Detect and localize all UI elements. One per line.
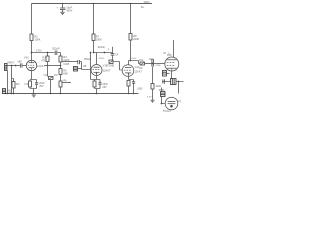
wire grid resistor to ground <box>13 88 15 94</box>
svg-text:470K: 470K <box>155 65 161 67</box>
wire V2 plate column upper <box>93 4 95 35</box>
tube V5 rectifier <box>165 97 178 110</box>
wire grid leak drop <box>90 53 92 80</box>
label volume pot <box>44 74 58 77</box>
svg-text:1M: 1M <box>54 74 57 77</box>
label tail <box>63 79 67 82</box>
wire to dropping resistor <box>47 53 49 57</box>
ground symbol main <box>32 95 36 97</box>
svg-text:68K: 68K <box>63 71 68 75</box>
wire cathode bottom loop <box>30 84 37 93</box>
svg-text:INPUT: INPUT <box>8 62 16 65</box>
wire mid box stub <box>78 68 82 70</box>
label pot <box>108 64 115 67</box>
svg-text:VOL: VOL <box>44 74 49 77</box>
svg-text:250V: 250V <box>99 58 105 60</box>
capacitor output row <box>163 79 165 83</box>
node input drop <box>11 65 13 67</box>
capacitor cathode bypass V1 <box>35 83 38 84</box>
label V3 <box>131 58 142 74</box>
label dropping resistor <box>41 57 46 63</box>
svg-text:.022: .022 <box>149 58 154 61</box>
label V2 cathode cap <box>102 83 108 89</box>
resistor cathode V1 <box>29 81 32 87</box>
ground symbol filter <box>60 12 64 14</box>
resistor cathode V2 <box>93 81 96 87</box>
wire output drop <box>178 82 180 94</box>
wire V3 cathode tee <box>129 80 134 82</box>
label filter cap <box>57 6 73 13</box>
svg-text:VOL: VOL <box>139 59 144 62</box>
wire filter cap stub <box>62 4 64 8</box>
wire B+ top rail <box>32 3 153 5</box>
svg-text:PWR: PWR <box>159 89 165 92</box>
tube V3 triode <box>122 65 134 77</box>
resistor divider upper <box>59 56 62 62</box>
svg-text:0.005: 0.005 <box>63 63 70 66</box>
tube V2 triode <box>91 65 102 76</box>
svg-text:R8: R8 <box>83 65 87 68</box>
wire pot to ground <box>50 80 52 94</box>
wire V3 cathode <box>128 76 130 79</box>
wire cap to pot <box>112 55 114 60</box>
wire coupling cap column <box>112 47 114 54</box>
wire divider mid <box>60 62 62 69</box>
label gnd text <box>137 87 143 90</box>
wire pot to V3 grid <box>113 62 122 71</box>
capacitor coupling to 6V6 <box>152 59 154 67</box>
node plate tee <box>47 52 49 54</box>
label B+ voltage <box>141 0 150 9</box>
wire filter cap to ground <box>62 10 64 13</box>
label grid cap <box>18 60 23 63</box>
wire plate node to pot right <box>131 61 141 64</box>
label ground box <box>7 90 12 94</box>
wire cap to 6V6 grid <box>154 63 165 65</box>
wire V2 cathode loop <box>95 84 101 93</box>
wire V3 plate jog <box>129 61 131 65</box>
label grid wire <box>83 65 87 68</box>
label grid leak <box>147 65 162 99</box>
resistor divider lower <box>59 69 62 75</box>
label input wire <box>8 62 16 65</box>
wire V2 plate stub <box>96 53 98 65</box>
svg-text:5Y3GT: 5Y3GT <box>163 109 172 113</box>
node output junction <box>178 81 180 83</box>
label output cap <box>149 58 154 61</box>
label V1A <box>24 56 45 68</box>
capacitor C2 coupling <box>55 51 57 56</box>
capacitor grid input <box>20 63 22 67</box>
potentiometer volume out <box>140 62 145 65</box>
transformer output OT <box>171 79 177 85</box>
label OT lead <box>163 52 170 56</box>
wire cap to divider <box>57 53 60 57</box>
svg-text:6V6: 6V6 <box>167 53 172 57</box>
svg-text:1M: 1M <box>139 67 142 70</box>
wire plate to coupling cap <box>32 52 55 54</box>
capacitor cathode bypass V2 <box>98 83 101 84</box>
wire 6V6 cathode <box>171 71 173 79</box>
svg-text:12AX7: 12AX7 <box>37 64 45 68</box>
wire 6V6 box stub <box>167 73 170 75</box>
node junction rail filter <box>62 3 64 5</box>
wire jog to grid resistor <box>12 79 14 82</box>
wire output row <box>162 81 184 83</box>
wire 6V6 plate from OT <box>173 40 175 57</box>
resistor dropping <box>46 56 49 62</box>
connector J1 input jack <box>5 64 8 71</box>
resistor R2 plate load V1 <box>30 34 33 41</box>
label coupling cap V2-V3 <box>97 45 105 49</box>
label V2 plate R <box>96 34 102 41</box>
label volume out <box>139 59 144 70</box>
resistor tail <box>59 81 62 87</box>
wire V2 plate column lower <box>93 41 95 53</box>
wire divider to tail <box>60 75 62 82</box>
label cathode R <box>24 83 29 86</box>
label mid cap <box>84 58 91 61</box>
label 1M <box>16 82 20 86</box>
wire grid leak drop <box>152 67 154 84</box>
node rail V2 column <box>93 3 95 5</box>
node plate junction V1 <box>31 52 33 54</box>
wire grid leak to ground <box>152 89 154 100</box>
component 6V6 cathode box <box>163 71 167 77</box>
label V3 plate R <box>133 34 139 41</box>
wire dropping resistor lower <box>47 62 49 66</box>
node tap <box>47 65 49 67</box>
wire V1 cathode <box>31 71 33 80</box>
wire tap to left <box>45 65 61 67</box>
resistor plate load V3 <box>129 34 132 41</box>
label divider lower <box>63 68 68 75</box>
svg-text:220K: 220K <box>133 37 139 41</box>
wire jack to grid cap <box>7 65 20 67</box>
capacitor mid coupling <box>78 60 80 64</box>
wire V3 plate column upper <box>130 4 132 34</box>
label rectifier <box>163 100 182 113</box>
node V3 plate <box>130 60 132 62</box>
tube V4 6V6 output <box>165 57 179 71</box>
svg-text:12AX7: 12AX7 <box>135 71 143 74</box>
svg-text:100K: 100K <box>96 37 102 41</box>
svg-text:PT: PT <box>178 100 182 103</box>
svg-text:1.5K: 1.5K <box>24 83 29 86</box>
svg-text:47K: 47K <box>41 59 46 62</box>
svg-text:GND: GND <box>137 87 143 90</box>
svg-text:150V: 150V <box>131 58 137 60</box>
wire to power terminal <box>161 88 163 92</box>
svg-text:68K: 68K <box>18 60 23 63</box>
node rail junctions <box>7 93 135 95</box>
svg-text:R6: R6 <box>63 79 67 82</box>
node grid drop <box>90 52 92 54</box>
wire V1 grid <box>23 65 27 67</box>
svg-text:12AX7: 12AX7 <box>103 69 111 73</box>
wire V1 plate column lower <box>31 41 33 61</box>
capacitor coupling V2-V3 <box>111 54 115 56</box>
resistor cathode V3 <box>127 81 130 87</box>
label cathode cap <box>39 82 45 88</box>
wire V1 plate column upper <box>31 4 33 35</box>
svg-text:450V: 450V <box>66 8 72 12</box>
wire terminal to rectifier <box>162 97 166 104</box>
wire tail to ground <box>60 87 62 94</box>
wire input ground drop <box>11 66 13 94</box>
label V2 <box>99 58 111 72</box>
svg-text:C4: C4 <box>115 54 119 57</box>
node 6V6 grid leak <box>152 63 154 65</box>
label power terminal <box>159 89 165 92</box>
svg-text:325V: 325V <box>144 0 150 4</box>
ground rail <box>2 93 139 95</box>
svg-text:220K: 220K <box>156 85 162 88</box>
wire tap down to pot <box>47 66 49 77</box>
wire jack sleeve drop <box>7 71 9 94</box>
connector ground terminal box <box>3 89 6 94</box>
resistor plate load V2 <box>92 34 95 41</box>
label divider upper <box>63 55 69 62</box>
resistor 6V6 grid leak <box>151 84 154 90</box>
potentiometer tone <box>109 60 113 64</box>
wire tail stub right <box>62 82 71 84</box>
wire mid tap right <box>62 61 77 63</box>
label C2 value <box>52 47 60 51</box>
node rectifier in <box>161 103 163 105</box>
resistor 1M grid leak <box>12 82 15 89</box>
node V2 plate right <box>104 52 106 54</box>
wire V2 cathode tee <box>91 80 101 83</box>
svg-text:1M: 1M <box>16 82 20 86</box>
svg-text:25V: 25V <box>102 86 107 89</box>
svg-text:.1: .1 <box>107 48 110 51</box>
label plate voltage <box>36 49 42 52</box>
svg-text:25V: 25V <box>39 85 44 88</box>
wire cathode tee <box>30 80 37 83</box>
svg-text:B+: B+ <box>141 5 145 9</box>
capacitor cathode V3 <box>132 82 135 83</box>
label coupling cap right <box>107 48 119 57</box>
node V2 plate <box>93 52 95 54</box>
svg-text:V1A: V1A <box>24 56 29 60</box>
tube V1A triode <box>26 60 36 70</box>
node input junction <box>15 65 17 67</box>
ground symbol 6V6 grid <box>151 100 155 102</box>
svg-text:.022uF: .022uF <box>52 47 60 51</box>
node V2 pin dot <box>96 73 97 74</box>
svg-text:6.3V: 6.3V <box>147 97 152 99</box>
node divider mid <box>60 65 62 67</box>
label mid value <box>63 63 70 66</box>
svg-text:.022uF: .022uF <box>97 45 105 49</box>
svg-text:+: + <box>57 6 59 9</box>
component power terminal <box>161 92 166 97</box>
label R2 100K <box>34 34 40 41</box>
node rail V3 column <box>130 3 132 5</box>
svg-text:170V: 170V <box>36 49 42 52</box>
wire V3 cathode drops <box>129 83 134 93</box>
wire V2 cathode <box>96 75 98 79</box>
wire V3 plate column lower <box>130 40 132 61</box>
potentiometer volume 1 <box>49 77 54 80</box>
connector mid box <box>74 67 78 72</box>
wire pot to output cap <box>145 63 152 65</box>
capacitor C filter <box>60 8 65 10</box>
wire mid cap to V2 grid <box>80 62 91 70</box>
label 6V6 <box>167 53 172 57</box>
node V3 pin dot <box>128 73 129 74</box>
svg-text:TONE: TONE <box>108 64 115 67</box>
svg-text:100K: 100K <box>34 37 40 41</box>
wire V2 plate node horizontal <box>94 52 113 54</box>
